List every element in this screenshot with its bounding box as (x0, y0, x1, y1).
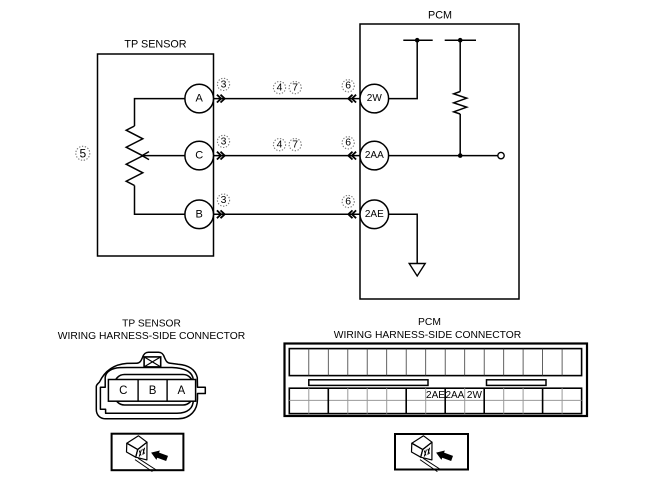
svg-text:TP SENSOR: TP SENSOR (124, 39, 186, 51)
svg-text:A: A (196, 93, 204, 105)
svg-text:2W: 2W (367, 93, 383, 104)
svg-text:6: 6 (345, 196, 351, 207)
svg-text:B: B (196, 208, 203, 220)
svg-text:7: 7 (292, 83, 298, 94)
svg-text:TP SENSOR: TP SENSOR (122, 319, 181, 330)
svg-text:3: 3 (221, 136, 227, 147)
svg-text:PCM: PCM (428, 10, 452, 22)
svg-text:A: A (177, 385, 185, 397)
svg-text:B: B (149, 385, 157, 397)
svg-text:WIRING HARNESS-SIDE CONNECTOR: WIRING HARNESS-SIDE CONNECTOR (334, 330, 521, 341)
svg-text:2AA: 2AA (365, 150, 384, 161)
svg-text:C: C (119, 385, 127, 397)
svg-text:2AE: 2AE (426, 390, 445, 401)
svg-text:WIRING HARNESS-SIDE CONNECTOR: WIRING HARNESS-SIDE CONNECTOR (58, 331, 245, 342)
svg-text:2W: 2W (467, 390, 483, 401)
svg-text:PCM: PCM (418, 317, 441, 328)
svg-text:3: 3 (221, 79, 227, 90)
svg-text:4: 4 (277, 83, 283, 94)
svg-text:5: 5 (79, 147, 86, 161)
svg-text:7: 7 (292, 140, 298, 151)
svg-text:2AE: 2AE (365, 209, 384, 220)
svg-text:C: C (195, 150, 203, 162)
svg-text:2AA: 2AA (445, 390, 464, 401)
svg-text:4: 4 (277, 140, 283, 151)
svg-text:3: 3 (221, 195, 227, 206)
svg-text:6: 6 (345, 81, 351, 92)
svg-text:6: 6 (345, 138, 351, 149)
